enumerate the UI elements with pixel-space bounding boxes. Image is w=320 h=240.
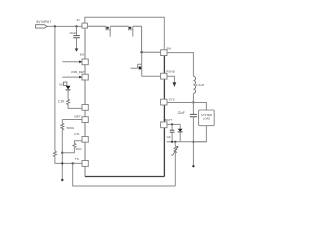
capacitor C1 10uF [69, 26, 80, 48]
wire USB_DET stub [62, 76, 79, 78]
svg-text:5V INPUT: 5V INPUT [36, 20, 51, 24]
node junction 10uF tap [75, 25, 77, 27]
wire external IN top to SW [85, 17, 165, 50]
wire 5V rail down left side [54, 26, 56, 151]
pin USB_DET [71, 70, 88, 80]
pin D [75, 157, 88, 167]
node junction BATT cap [171, 123, 173, 125]
node junction SYS [192, 101, 194, 103]
svg-text:ISET: ISET [74, 115, 81, 119]
wire 500ohm down to terminal [61, 131, 63, 179]
wire ISET pin to resistor [62, 120, 82, 124]
svg-text:1uF: 1uF [166, 135, 171, 139]
svg-text:2.2uH: 2.2uH [196, 83, 204, 87]
node junction 2K tap [61, 152, 63, 154]
svg-text:PGND: PGND [166, 70, 176, 74]
node terminal dot 22uF [192, 165, 194, 167]
node EN arrowhead [79, 60, 82, 63]
inductor L1 2.2uH [193, 76, 204, 93]
pin C [74, 132, 88, 142]
node junction 5V rail [54, 25, 56, 27]
node junction FET drain / SW [140, 51, 142, 53]
transistor Q1 internal FET [131, 52, 161, 76]
svg-text:10uF: 10uF [69, 31, 76, 35]
wire long bottom return [73, 163, 176, 186]
pin BATT [161, 118, 173, 128]
wire 2K up to pin C [74, 141, 82, 143]
svg-text:22uF: 22uF [178, 111, 185, 115]
ground arrow for C1 [75, 49, 79, 52]
node terminal dot [61, 179, 63, 181]
capacitor 22uF [178, 103, 197, 166]
svg-text:TS: TS [75, 157, 79, 161]
node junction cap bottom [171, 141, 173, 143]
svg-text:2KΩ: 2KΩ [76, 147, 83, 151]
svg-text:BATT: BATT [165, 118, 173, 122]
wire PGND to ground [167, 76, 174, 82]
wire rail bottom to pin D [55, 158, 82, 164]
wire EN stub [62, 61, 79, 63]
pin IN [82, 23, 87, 28]
pin EN [80, 52, 88, 64]
thermistor RT1 [171, 142, 178, 186]
diode LED D1 [66, 86, 71, 99]
ground arrow PGND [173, 82, 177, 87]
IC dark right and bottom edge [85, 56, 164, 177]
resistor 500ohm [61, 123, 75, 131]
pin top2 [129, 26, 133, 36]
svg-text:USB_DET: USB_DET [71, 70, 85, 74]
capacitor 1uF [166, 124, 174, 141]
node 5V net flag [59, 82, 67, 87]
wire load box to bottom [193, 126, 206, 142]
wire LED chain to pin A [68, 105, 82, 109]
resistor 2.2K [58, 99, 70, 105]
wire inductor to SYS node [192, 93, 194, 102]
pin PGND [161, 70, 176, 80]
pin SYS [161, 98, 175, 105]
wire BATT [167, 123, 180, 125]
pin ISET [74, 115, 88, 123]
svg-text:2.2K: 2.2K [58, 99, 65, 103]
resistor 2Kohm [73, 143, 82, 151]
svg-text:5V: 5V [59, 83, 63, 87]
svg-text:SYS: SYS [169, 98, 175, 102]
node 5V INPUT connector flag [36, 20, 52, 28]
node junction bottom branch [72, 162, 74, 164]
IC body outline U1 [85, 26, 161, 176]
node junction thermistor top [174, 141, 176, 143]
svg-text:500Ω: 500Ω [67, 126, 75, 130]
wire SYS to load box [167, 103, 206, 111]
wire 2K branch [62, 148, 74, 153]
battery cell [178, 124, 183, 141]
node junction 22uF bottom [192, 141, 194, 143]
resistor R-rail (unlabeled) [53, 151, 56, 158]
pin SW [161, 46, 172, 55]
wire input to IN pin [47, 25, 82, 27]
pin A (status) [82, 105, 88, 111]
node junction at 163.4 [61, 162, 63, 164]
node USB_DET arrowhead [79, 76, 82, 79]
svg-text:IN: IN [77, 18, 80, 22]
svg-text:SYSTEM: SYSTEM [201, 113, 213, 117]
wire battery bottom bus [167, 141, 207, 143]
svg-text:LOAD: LOAD [203, 117, 210, 121]
svg-text:CTL: CTL [74, 132, 80, 136]
svg-text:EN: EN [80, 52, 84, 56]
pin top1 [106, 26, 110, 36]
wire SW to inductor [167, 53, 193, 77]
block SYSTEM LOAD [199, 110, 215, 126]
